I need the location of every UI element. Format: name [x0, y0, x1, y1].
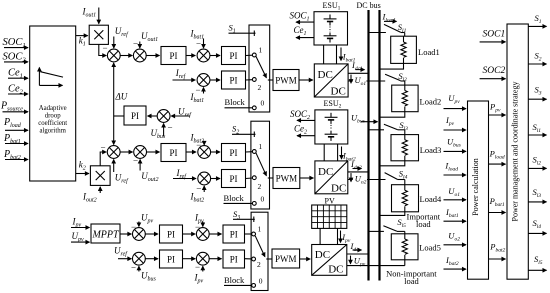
- svg-text:Ibat2: Ibat2: [445, 255, 459, 267]
- svg-text:Ipv: Ipv: [72, 217, 82, 229]
- battery cell ESU2 bottom: [325, 131, 338, 141]
- svg-text:−: −: [168, 123, 173, 133]
- PV array block: [312, 196, 347, 228]
- svg-text:ESU2: ESU2: [324, 99, 342, 110]
- label Iload: [382, 12, 397, 24]
- svg-text:DC: DC: [328, 264, 343, 276]
- svg-text:Upv: Upv: [72, 231, 85, 243]
- svg-text:Pload: Pload: [3, 117, 22, 129]
- input Iout1: [82, 7, 99, 24]
- wire sum E1 to PI: [145, 233, 158, 235]
- label Block ch3: [224, 275, 252, 285]
- wire sum E2 to PI: [145, 258, 158, 260]
- svg-text:Load5: Load5: [419, 243, 441, 253]
- svg-text:PI: PI: [230, 255, 238, 265]
- output SOC2 from ESU2: [290, 109, 315, 121]
- output Sl5: [528, 254, 546, 271]
- svg-text:Sl4: Sl4: [533, 218, 542, 230]
- svg-text:Pbat2: Pbat2: [489, 242, 505, 254]
- svg-text:k2: k2: [79, 160, 86, 172]
- input Ipv feedback lower: [194, 262, 204, 285]
- svg-text:Uo2: Uo2: [448, 230, 460, 242]
- svg-text:Iref: Iref: [175, 68, 187, 80]
- input Iload to power calculation: [444, 161, 467, 176]
- summing junction C1: [197, 49, 210, 62]
- summing junction D1: [197, 74, 210, 87]
- svg-text:Sl4: Sl4: [399, 168, 408, 180]
- svg-text:0: 0: [259, 277, 263, 286]
- wire Pbat2: [489, 242, 506, 260]
- label Block ch1: [225, 97, 253, 108]
- input Ipv feedback upper: [194, 213, 204, 233]
- input Uout1: [133, 31, 158, 49]
- wire sum B1 to PI: [146, 55, 160, 57]
- svg-text:1: 1: [258, 225, 262, 234]
- svg-text:MPPT: MPPT: [91, 230, 120, 241]
- input Uref channel2: [114, 160, 129, 185]
- svg-text:S2: S2: [232, 124, 239, 136]
- svg-text:Uref: Uref: [115, 173, 129, 185]
- ESU1 block: [314, 1, 348, 45]
- block adaptive droop coefficient algorithm: [30, 26, 76, 181]
- input Upv feedback upper: [131, 213, 154, 233]
- svg-text:Aadaptive: Aadaptive: [39, 105, 67, 112]
- input Ce2: [8, 84, 28, 96]
- svg-text:DC bus: DC bus: [357, 1, 381, 10]
- svg-text:1: 1: [259, 46, 263, 55]
- input Iref ch2: [173, 168, 196, 180]
- svg-text:Ubus: Ubus: [141, 271, 157, 283]
- svg-text:Iout2: Iout2: [82, 192, 97, 204]
- input Uo2 to power calculation: [444, 230, 467, 245]
- label Idc1: [351, 60, 365, 72]
- svg-text:Upv: Upv: [448, 93, 460, 105]
- input SOC1: [3, 37, 29, 49]
- svg-text:−: −: [196, 85, 201, 95]
- svg-text:load: load: [404, 276, 419, 286]
- svg-text:PI: PI: [167, 255, 175, 265]
- wire PI to selector contact 1 ch2: [246, 151, 253, 153]
- summing junction A1: [107, 49, 120, 62]
- svg-text:PWM: PWM: [275, 76, 297, 86]
- wire MPPT to sum E1: [120, 233, 131, 235]
- svg-text:S1: S1: [535, 13, 542, 25]
- summing junction E2: [133, 252, 146, 265]
- wire ESU2 to DC-DC2: [324, 144, 337, 161]
- output Sl3: [528, 187, 546, 202]
- svg-text:Pbat1: Pbat1: [489, 196, 505, 208]
- PI controller pv current upper: [223, 225, 245, 243]
- svg-text:PI: PI: [131, 111, 139, 121]
- multiplier X2: [90, 166, 110, 186]
- wire DC-DC3 output negative and load5 return: [347, 265, 405, 267]
- output SOC1 from ESU1: [290, 11, 314, 23]
- svg-text:SOC1: SOC1: [483, 29, 506, 39]
- svg-text:Upv: Upv: [141, 213, 154, 225]
- battery cell ESU2 top: [325, 113, 338, 124]
- wire PWM1 to DC-DC1: [299, 79, 313, 81]
- input SOC2 to strategy: [480, 66, 506, 79]
- load3 box with resistor: [391, 135, 441, 161]
- PI controller pv voltage upper: [160, 225, 183, 243]
- svg-text:PI: PI: [230, 230, 238, 240]
- wire multiplier X2 to sum A2: [100, 143, 106, 166]
- wire sum D2 to PI: [210, 178, 220, 180]
- wire ESU1 to DC-DC1: [324, 45, 337, 64]
- wire load1 return: [380, 63, 404, 69]
- svg-text:Sl5: Sl5: [534, 254, 543, 266]
- battery cell ESU1 top: [324, 15, 337, 26]
- PI controller pv voltage lower: [160, 250, 183, 268]
- input SOC2: [3, 51, 29, 63]
- input Psource: [0, 101, 28, 113]
- wire PI to sum C1: [186, 55, 195, 57]
- input Upv to MPPT: [71, 231, 90, 243]
- wire DC-DC3 output positive: [347, 253, 370, 255]
- svg-text:Ipv: Ipv: [194, 273, 204, 285]
- svg-text:−: −: [133, 156, 138, 166]
- svg-text:Sl3: Sl3: [533, 187, 542, 199]
- input Ipv to power calculation: [444, 115, 467, 130]
- wire delta-U vertical: [114, 63, 128, 145]
- svg-text:DC: DC: [318, 166, 333, 178]
- PI controller current ch1 upper: [222, 47, 246, 65]
- svg-text:PI: PI: [229, 51, 237, 61]
- summing junction restoration: [148, 110, 171, 123]
- wire sum C2 to PI: [210, 151, 220, 153]
- wire PWM3 to DC-DC3: [300, 258, 311, 260]
- svg-text:S2: S2: [535, 51, 542, 63]
- output Ce2 from ESU2: [294, 124, 315, 136]
- wire load1 feed: [369, 32, 386, 34]
- svg-text:Sl1: Sl1: [533, 122, 542, 134]
- wire PI to sum F2: [183, 258, 196, 260]
- ESU2 block: [315, 99, 348, 144]
- switch Sl2: [385, 71, 407, 85]
- svg-text:Load3: Load3: [420, 145, 442, 155]
- wire load5 return stub: [404, 260, 406, 266]
- svg-text:Psource: Psource: [0, 101, 23, 113]
- svg-text:PI: PI: [229, 148, 237, 158]
- svg-text:Ce2: Ce2: [294, 124, 307, 136]
- wire PI to selector contact 2 ch2: [246, 177, 253, 180]
- svg-text:S3: S3: [535, 84, 542, 96]
- wire Pbat1: [489, 196, 506, 212]
- svg-text:Pload: Pload: [489, 149, 505, 161]
- PI controller restoration: [114, 106, 146, 125]
- svg-text:2: 2: [257, 260, 261, 269]
- svg-text:1: 1: [259, 142, 263, 151]
- svg-text:k1: k1: [79, 36, 86, 48]
- svg-text:PV: PV: [325, 196, 335, 205]
- output Sl1: [528, 122, 546, 135]
- output Sl2: [528, 155, 546, 169]
- switch Sl1: [384, 22, 407, 36]
- battery dotted link ESU2: [330, 125, 332, 130]
- control S2: [232, 124, 256, 138]
- svg-text:−: −: [195, 222, 200, 232]
- load2 box with resistor: [392, 85, 442, 112]
- summing junction A2: [107, 146, 120, 159]
- wire sum B2 to PI: [146, 151, 159, 153]
- wire PI to selector contact 2: [246, 79, 253, 81]
- summing junction B2: [134, 146, 147, 159]
- label Ipv: [341, 231, 351, 245]
- summing junction E1: [133, 228, 146, 241]
- wire sum D1 to PI: [210, 79, 221, 81]
- svg-text:Uo1: Uo1: [448, 186, 460, 198]
- svg-text:−: −: [195, 262, 200, 272]
- svg-text:Ibat1: Ibat1: [445, 207, 459, 219]
- wire load3 feed: [369, 129, 385, 131]
- wire DC-DC1 output positive: [348, 72, 369, 74]
- svg-text:0: 0: [261, 99, 265, 108]
- input Ibat2 upper: [190, 133, 205, 151]
- svg-text:Ppv: Ppv: [489, 101, 501, 113]
- svg-text:−: −: [196, 140, 201, 150]
- wire PI to sum F1: [183, 233, 196, 235]
- DC-DC converter 1: [314, 64, 348, 98]
- wire load2 return: [380, 112, 405, 118]
- input Iref ch1: [173, 68, 196, 80]
- selector switch S1: [249, 25, 270, 112]
- label Upv: [351, 255, 367, 267]
- svg-text:−: −: [101, 143, 106, 153]
- svg-text:−: −: [196, 39, 201, 49]
- PWM modulator 2: [273, 168, 300, 189]
- wire sum A2 to sum B2: [120, 151, 133, 153]
- svg-text:PI: PI: [229, 174, 237, 184]
- wire Pload: [489, 149, 506, 165]
- input Ubus restoration: [151, 123, 173, 141]
- DC-DC converter 3: [312, 245, 347, 276]
- droop curve graph: [39, 68, 63, 86]
- svg-text:Uref: Uref: [178, 107, 192, 119]
- wire sum F1 to PI: [209, 233, 222, 235]
- label Uo1: [351, 75, 366, 87]
- svg-text:DC: DC: [315, 249, 330, 261]
- output Sl4: [528, 218, 546, 233]
- svg-text:Idc: Idc: [350, 241, 360, 253]
- output S1: [528, 13, 546, 27]
- svg-text:Uref: Uref: [114, 246, 128, 258]
- svg-text:DC: DC: [331, 86, 346, 98]
- wire DC-DC2 output negative: [348, 179, 386, 181]
- wire PWM2 to DC-DC2: [300, 177, 314, 179]
- input Uref restoration: [171, 107, 192, 119]
- input Ibat2 lower: [190, 184, 205, 204]
- switch Sl3: [384, 120, 408, 135]
- multiplier X1: [89, 25, 108, 44]
- switch Sl5: [383, 217, 406, 234]
- svg-text:−: −: [196, 184, 201, 194]
- svg-text:ΔU: ΔU: [115, 92, 128, 102]
- input Ibat2 to power calculation: [444, 255, 467, 269]
- svg-text:Iout1: Iout1: [82, 7, 97, 19]
- wire PV to DC-DC3: [320, 228, 337, 244]
- svg-text:Load4: Load4: [420, 194, 442, 204]
- control S1: [229, 23, 256, 37]
- svg-text:Ipv: Ipv: [341, 232, 351, 244]
- svg-text:−: −: [131, 222, 136, 232]
- svg-text:Block: Block: [225, 97, 246, 107]
- battery dotted link ESU1: [329, 27, 331, 33]
- svg-text:PI: PI: [229, 76, 237, 86]
- input Ubus to power calculation: [444, 136, 467, 151]
- PI controller current ch1 lower: [222, 71, 246, 89]
- wire load4 return: [380, 212, 405, 216]
- svg-text:SOC2: SOC2: [290, 109, 310, 121]
- summing junction F1: [196, 228, 209, 241]
- input Pload: [3, 117, 28, 130]
- load4 box with resistor: [392, 185, 442, 212]
- svg-text:PI: PI: [167, 230, 175, 240]
- wire load5 feed: [369, 230, 384, 232]
- wire Ppv: [489, 101, 506, 115]
- block power calculation: [468, 101, 489, 279]
- battery cell ESU1 bottom: [324, 33, 337, 43]
- input Ipv to MPPT: [71, 217, 90, 229]
- svg-text:Uref: Uref: [115, 26, 129, 38]
- label Idc3: [350, 241, 362, 253]
- svg-text:Ubus: Ubus: [447, 136, 461, 148]
- input Ce1: [8, 68, 28, 80]
- summing junction B1: [133, 49, 146, 62]
- svg-text:DC: DC: [318, 69, 333, 81]
- svg-text:Power calculation: Power calculation: [471, 158, 480, 216]
- MPPT block: [91, 224, 120, 243]
- PWM modulator 3: [272, 249, 300, 268]
- svg-text:coefficient: coefficient: [38, 120, 67, 127]
- input Ibat1 lower: [190, 85, 205, 104]
- switch blade S2: [256, 153, 273, 178]
- input Ubus feedback ch3: [131, 263, 157, 283]
- svg-text:Block: Block: [224, 275, 245, 285]
- summing junction C2: [198, 146, 211, 159]
- svg-text:droop: droop: [45, 112, 61, 119]
- summing junction D2: [198, 172, 211, 185]
- output Ce1 from ESU1: [294, 25, 314, 37]
- DC-DC converter 2: [315, 161, 348, 194]
- svg-text:PWM: PWM: [275, 254, 297, 264]
- svg-text:Ipv: Ipv: [445, 115, 455, 127]
- svg-text:Uout2: Uout2: [141, 171, 158, 183]
- label Ibat2: [342, 147, 356, 163]
- PI controller voltage ch2: [161, 144, 186, 162]
- PI controller current ch2 upper: [222, 144, 246, 162]
- wire sum A1 to sum B1: [120, 55, 133, 57]
- label Idc2: [350, 159, 362, 171]
- switch Sl4: [385, 168, 408, 184]
- svg-text:DC: DC: [331, 182, 346, 194]
- svg-text:SOC1: SOC1: [290, 11, 310, 23]
- wire DC-DC1 output negative: [348, 80, 385, 82]
- PI controller pv current lower: [223, 250, 245, 268]
- summing junction F2: [196, 252, 209, 265]
- svg-text:algorithm: algorithm: [39, 127, 66, 134]
- input Pbat2: [3, 149, 28, 161]
- wire PI to sum C2: [186, 151, 196, 153]
- svg-text:−: −: [133, 39, 138, 49]
- svg-text:PI: PI: [169, 51, 177, 61]
- output S3: [528, 84, 546, 99]
- label important load: [407, 211, 441, 229]
- svg-text:−: −: [131, 263, 136, 273]
- load1 box with resistor: [391, 36, 440, 63]
- selector switch S3: [251, 212, 268, 290]
- svg-text:Load1: Load1: [418, 47, 440, 57]
- DC bus rail right: [378, 10, 380, 281]
- wire DC-DC2 output positive: [348, 171, 370, 173]
- load5 box with resistor: [391, 234, 441, 260]
- label non-important load: [386, 268, 437, 286]
- input Ibat1 upper: [190, 29, 205, 49]
- input Ibat1 to power calculation: [444, 207, 467, 221]
- control S3: [233, 209, 255, 222]
- selector switch S2: [251, 121, 270, 209]
- svg-text:Uout1: Uout1: [141, 31, 158, 43]
- svg-text:2: 2: [258, 182, 262, 191]
- svg-text:ESU1: ESU1: [323, 1, 341, 12]
- svg-text:PWM: PWM: [276, 174, 298, 184]
- svg-text:−: −: [103, 43, 108, 53]
- label Uo2: [351, 173, 367, 185]
- input Uo1 to power calculation: [444, 186, 467, 200]
- svg-text:PI: PI: [169, 148, 177, 158]
- svg-text:Ubus: Ubus: [351, 113, 365, 125]
- wire sum C1 to PI: [210, 55, 221, 57]
- PI controller current ch2 lower: [222, 170, 246, 188]
- wire k1: [76, 36, 88, 48]
- label Ibat1: [341, 48, 356, 64]
- PWM modulator 1: [273, 70, 299, 91]
- svg-text:Sl2: Sl2: [533, 155, 542, 167]
- wire load3 return: [380, 161, 405, 166]
- block power management strategy: [507, 24, 528, 279]
- input Pbat1: [3, 133, 28, 145]
- svg-text:Block: Block: [224, 193, 245, 203]
- svg-text:2: 2: [258, 83, 262, 92]
- DC bus rail left: [367, 10, 369, 281]
- input Uout2: [133, 156, 158, 184]
- label Ubus tap: [351, 113, 378, 125]
- input Uref channel1: [114, 26, 129, 48]
- svg-text:Power management and coordinat: Power management and coordinate strategy: [511, 82, 520, 222]
- svg-text:Sl2: Sl2: [398, 71, 407, 83]
- wire PI to selector contact 1: [246, 54, 253, 56]
- input Upv to power calculation: [444, 93, 467, 109]
- input Iout2: [82, 187, 100, 204]
- svg-text:SOC2: SOC2: [483, 66, 506, 76]
- label Block ch2: [224, 193, 253, 203]
- svg-text:Load2: Load2: [420, 97, 442, 107]
- svg-text:Iload: Iload: [444, 161, 458, 173]
- svg-text:0: 0: [261, 195, 265, 204]
- switch blade S3: [255, 236, 272, 259]
- input Uref ch3: [114, 246, 131, 259]
- wire multiplier X1 to sum A1: [99, 43, 108, 56]
- svg-text:Ce1: Ce1: [294, 25, 307, 37]
- wire sum F2 to PI: [209, 258, 222, 260]
- switch blade S1: [256, 56, 273, 80]
- PI controller voltage ch1: [161, 47, 186, 65]
- wire PI to selector contact 1 ch3: [245, 233, 252, 235]
- output S2: [528, 51, 546, 65]
- svg-text:Sl5: Sl5: [397, 217, 406, 229]
- wire k2: [76, 160, 89, 174]
- wire PI to selector contact 2 ch3: [245, 258, 252, 260]
- input SOC1 to strategy: [480, 29, 506, 42]
